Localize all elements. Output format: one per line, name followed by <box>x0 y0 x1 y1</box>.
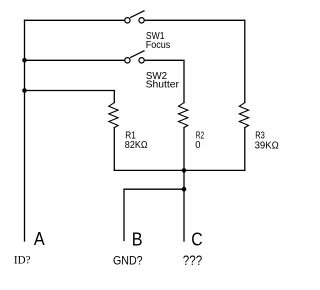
svg-text:A: A <box>34 228 45 249</box>
wire SW1 right contact to top-right corner down to R3 <box>144 20 244 102</box>
svg-text:0: 0 <box>195 140 201 151</box>
svg-text:???: ??? <box>183 252 203 268</box>
svg-text:B: B <box>132 228 143 249</box>
junction dot bottom bus <box>182 168 187 173</box>
wire R1 bottom lead <box>113 128 115 171</box>
resistor R3 body <box>239 103 248 128</box>
switch SW2 <box>125 51 145 63</box>
junction dot node B <box>182 187 187 192</box>
wire node C lead <box>183 189 185 241</box>
junction dot rail2 <box>22 58 27 63</box>
svg-text:39KΩ: 39KΩ <box>255 141 279 152</box>
wire bottom bus <box>114 169 245 171</box>
wire left rail (node A vertical) <box>24 20 26 241</box>
wire SW2 right contact to R2 top <box>144 60 184 102</box>
wire lower rail to R1 top <box>25 91 115 103</box>
svg-text:82KΩ: 82KΩ <box>125 140 148 151</box>
junction dot rail3 <box>22 88 27 93</box>
switch SW1 <box>125 11 145 23</box>
svg-text:GND?: GND? <box>113 253 143 267</box>
wire top rail to SW1 left contact <box>25 19 125 21</box>
wire node B branch <box>124 189 184 240</box>
svg-text:Shutter: Shutter <box>146 79 180 90</box>
svg-text:C: C <box>191 228 202 249</box>
wire middle rail to SW2 left contact <box>25 59 125 61</box>
wire R2 bottom lead <box>183 128 185 190</box>
svg-text:ID?: ID? <box>14 253 31 266</box>
resistor R1 body <box>109 103 118 128</box>
svg-text:Focus: Focus <box>146 40 171 51</box>
wire R3 bottom lead <box>244 128 246 171</box>
resistor R2 body <box>179 103 188 128</box>
